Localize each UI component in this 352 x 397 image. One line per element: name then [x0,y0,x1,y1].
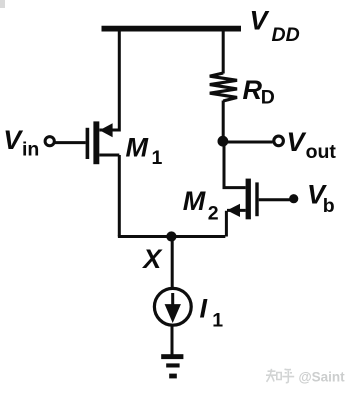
svg-text:D: D [261,87,275,109]
wire: resistor RD to node Vout [222,101,225,142]
wire: M2 gate to Vb terminal [259,198,290,201]
svg-text:R: R [243,75,263,105]
label Vout [287,127,337,163]
wire: I1 to ground [171,325,174,356]
transistor M1 [86,121,120,164]
wire: node Vout to M2 drain [224,141,246,188]
wire: M1 source to node X [118,155,121,237]
svg-text:in: in [22,138,39,160]
label RD [243,75,275,109]
node Vout junction dot [218,136,229,147]
svg-text:M: M [126,132,149,162]
label I1 [200,294,224,332]
svg-text:2: 2 [208,203,219,225]
node X rail wire [118,235,225,238]
svg-text:@Saint: @Saint [299,370,346,385]
current source I1 [154,288,191,325]
svg-text:V: V [250,5,270,35]
svg-text:I: I [200,294,208,324]
svg-text:b: b [323,195,335,217]
svg-text:DD: DD [272,24,300,46]
wire: M2 source to node X [225,211,228,237]
watermark 知乎 @Saint [266,369,345,385]
wire: VDD rail to resistor RD [222,29,225,74]
label Vb [307,180,335,217]
resistor RD [210,73,237,101]
ground [161,354,183,378]
svg-text:X: X [141,244,163,274]
wire: node X to current source I1 [171,237,174,289]
svg-text:1: 1 [152,147,163,169]
wire: VDD rail to M1 drain [99,29,119,130]
output terminal circle Vout [274,136,284,146]
svg-text:out: out [306,141,337,163]
node X junction dot [166,231,176,241]
transistor M2 [227,179,259,220]
scan artifact top-left [0,0,5,8]
label Vin [3,125,39,160]
svg-text:M: M [183,186,206,216]
wire: node Vout to output terminal [223,141,273,144]
label M1 [126,132,163,168]
svg-text:1: 1 [212,309,223,331]
VDD power rail [102,26,242,32]
label VDD [250,5,300,46]
wire: Vin terminal to M1 gate [54,141,85,144]
label M2 [183,186,219,225]
terminal dot Vb [289,194,298,203]
svg-text:V: V [3,125,23,155]
svg-text:V: V [287,127,307,157]
input terminal circle Vin [45,137,54,146]
